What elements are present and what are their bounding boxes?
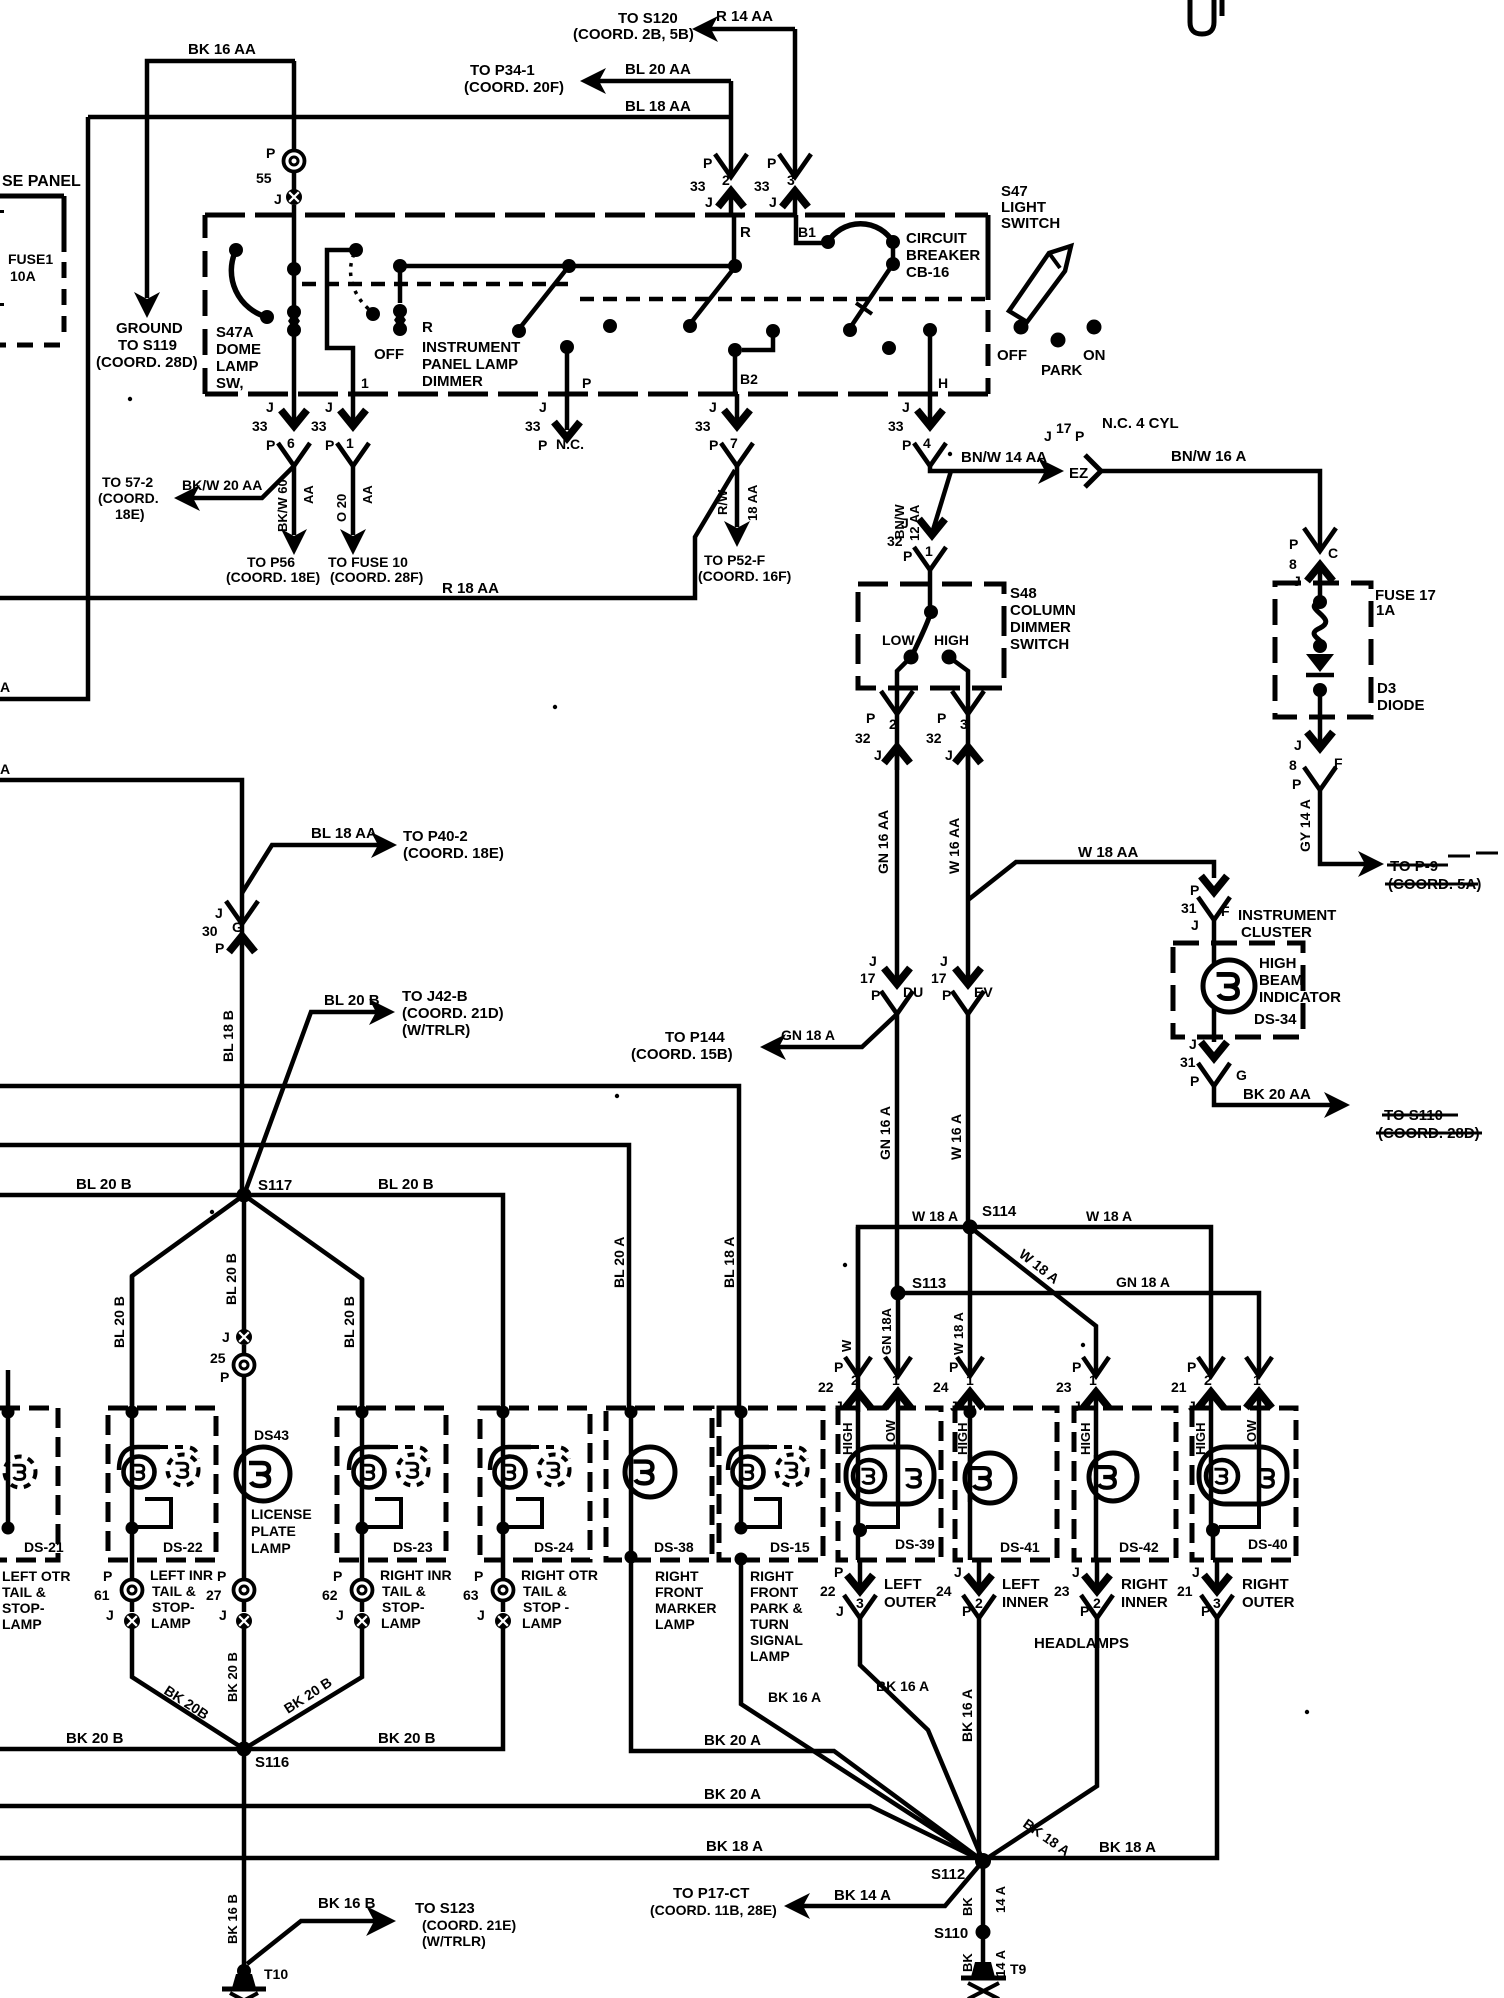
- svg-text:HIGH: HIGH: [955, 1423, 970, 1456]
- svg-text:(COORD. 28D): (COORD. 28D): [96, 354, 198, 371]
- node S117: [237, 1188, 252, 1203]
- svg-text:33: 33: [525, 418, 541, 434]
- wire BL 20 B to J42-B: [244, 1012, 383, 1195]
- svg-text:P: P: [871, 987, 880, 1003]
- svg-text:FUSE1: FUSE1: [8, 251, 53, 267]
- svg-text:1: 1: [892, 1372, 900, 1388]
- connector pin 3 of J32: [966, 688, 971, 714]
- wire BK 14 A down from S112: [981, 1861, 986, 1929]
- DS-41 bulb: [965, 1453, 1015, 1503]
- svg-text:P: P: [1187, 1359, 1196, 1375]
- wire GN 18 A to P144: [772, 1014, 897, 1047]
- connector DU: [884, 968, 910, 984]
- wire W 16 AA: [966, 747, 971, 984]
- svg-text:STOP -: STOP -: [523, 1599, 570, 1615]
- connector pin 2 of J32: [895, 688, 900, 714]
- svg-text:P: P: [538, 437, 547, 453]
- svg-text:23: 23: [1056, 1379, 1072, 1395]
- wire pin 1 LOW of DS-39: [896, 1392, 901, 1503]
- svg-text:N.C. 4 CYL: N.C. 4 CYL: [1102, 415, 1179, 432]
- svg-text:32: 32: [926, 730, 942, 746]
- svg-text:TO S123: TO S123: [415, 1900, 475, 1917]
- svg-text:P: P: [1075, 428, 1084, 444]
- svg-text:GN 18 A: GN 18 A: [1116, 1274, 1170, 1290]
- svg-text:3: 3: [1213, 1595, 1221, 1611]
- wire BK 16 B to S123: [247, 1921, 380, 1964]
- instrument cluster box: [1173, 943, 1303, 1037]
- wire W 18 AA branch: [968, 862, 1214, 900]
- high beam indicator bulb DS-34: [1203, 960, 1255, 1012]
- svg-text:J: J: [940, 953, 948, 969]
- svg-text:D3: D3: [1377, 680, 1396, 697]
- svg-text:BL 20 B: BL 20 B: [111, 1296, 127, 1348]
- svg-text:BK 20 AA: BK 20 AA: [1243, 1086, 1311, 1103]
- svg-text:LAMP: LAMP: [151, 1615, 191, 1631]
- connector F into cluster: [1201, 876, 1227, 892]
- wire through cluster: [1212, 920, 1217, 1042]
- svg-text:ON: ON: [1083, 347, 1106, 364]
- svg-text:W 16 AA: W 16 AA: [946, 818, 962, 874]
- svg-text:1: 1: [925, 543, 933, 559]
- svg-text:TO P52-F: TO P52-F: [704, 552, 766, 568]
- svg-text:TO P40-2: TO P40-2: [403, 828, 468, 845]
- svg-text:DS43: DS43: [254, 1427, 289, 1443]
- svg-text:24: 24: [933, 1379, 949, 1395]
- svg-text:J: J: [836, 1603, 844, 1619]
- svg-text:TO S119: TO S119: [118, 337, 177, 354]
- ground arrow to S119: [134, 292, 160, 318]
- svg-text:33: 33: [695, 418, 711, 434]
- svg-text:2: 2: [1093, 1595, 1101, 1611]
- svg-text:BL 20 B: BL 20 B: [341, 1296, 357, 1348]
- wire W 18 A left segment: [858, 1227, 970, 1412]
- svg-text:BK: BK: [960, 1897, 975, 1916]
- lamp DS43 license plate: [236, 1447, 290, 1501]
- wire BK 18 A from DS-42 to S112: [983, 1617, 1097, 1861]
- svg-text:W 18 A: W 18 A: [951, 1312, 966, 1355]
- svg-text:LAMP: LAMP: [750, 1648, 790, 1664]
- svg-text:T9: T9: [1010, 1961, 1027, 1977]
- svg-text:P: P: [266, 437, 275, 453]
- connector pin 3 below DS-40: [1215, 1560, 1220, 1591]
- wire BK 20 A bus: [0, 1806, 983, 1861]
- node S116: [237, 1742, 252, 1757]
- svg-text:17: 17: [931, 970, 947, 986]
- svg-text:P: P: [582, 375, 591, 391]
- wire vertical to pin 2: [729, 81, 734, 177]
- wire BK 20 B from DS43 to S116: [242, 1628, 247, 1749]
- diode D3 element: [1306, 654, 1334, 672]
- svg-text:LAMP: LAMP: [2, 1616, 42, 1632]
- svg-text:PANEL LAMP: PANEL LAMP: [422, 356, 518, 373]
- svg-text:BK 16 AA: BK 16 AA: [188, 41, 256, 58]
- svg-text:C: C: [1328, 545, 1338, 561]
- lamp DS-39 left outer headlamp: [838, 1408, 941, 1560]
- svg-text:LEFT INR: LEFT INR: [150, 1567, 213, 1583]
- svg-text:HIGH: HIGH: [934, 632, 969, 648]
- svg-text:SWITCH: SWITCH: [1010, 636, 1069, 653]
- svg-text:P: P: [703, 155, 712, 171]
- svg-text:(W/TRLR): (W/TRLR): [402, 1022, 470, 1039]
- svg-text:LIGHT: LIGHT: [1001, 199, 1046, 216]
- connector pin 3 of J33/P: [779, 154, 811, 177]
- svg-text:STOP-: STOP-: [152, 1599, 195, 1615]
- svg-text:TAIL &: TAIL &: [523, 1583, 567, 1599]
- svg-text:BL 20 B: BL 20 B: [378, 1176, 434, 1193]
- svg-text:1: 1: [966, 1372, 974, 1388]
- connector J 25 P on DS43 feed: [236, 1329, 252, 1345]
- svg-text:17: 17: [1056, 420, 1072, 436]
- svg-text:14 A: 14 A: [993, 1885, 1008, 1913]
- svg-text:(COORD. 15B): (COORD. 15B): [631, 1046, 733, 1063]
- wire BK 20 B from DS-24 to S116: [244, 1628, 503, 1749]
- svg-text:S48: S48: [1010, 585, 1037, 602]
- svg-text:BK/W 20 AA: BK/W 20 AA: [182, 477, 262, 493]
- svg-text:J: J: [869, 953, 877, 969]
- svg-text:S117: S117: [258, 1177, 292, 1194]
- svg-text:DS-34: DS-34: [1254, 1011, 1297, 1028]
- svg-text:J: J: [477, 1607, 485, 1623]
- wire BL 18 AA: [88, 115, 731, 120]
- wire W 18 A down to DS-41: [968, 1227, 973, 1376]
- svg-text:P: P: [942, 987, 951, 1003]
- svg-text:RIGHT: RIGHT: [750, 1568, 794, 1584]
- svg-text:21: 21: [1171, 1379, 1187, 1395]
- svg-text:TO P144: TO P144: [665, 1029, 725, 1046]
- svg-text:BK 20 B: BK 20 B: [225, 1652, 240, 1702]
- svg-text:BK 20 A: BK 20 A: [704, 1732, 761, 1749]
- svg-text:55: 55: [256, 170, 272, 186]
- svg-text:33: 33: [690, 178, 706, 194]
- svg-text:GN 18 A: GN 18 A: [781, 1027, 835, 1043]
- svg-text:W 18 A: W 18 A: [1086, 1208, 1132, 1224]
- svg-text:P: P: [709, 437, 718, 453]
- svg-text:(W/TRLR): (W/TRLR): [422, 1933, 486, 1949]
- svg-text:23: 23: [1054, 1583, 1070, 1599]
- svg-text:INDICATOR: INDICATOR: [1259, 989, 1341, 1006]
- svg-text:10A: 10A: [10, 268, 36, 284]
- svg-text:J: J: [1073, 1398, 1081, 1414]
- svg-text:SIGNAL: SIGNAL: [750, 1632, 803, 1648]
- svg-text:33: 33: [754, 178, 770, 194]
- connector pin 6 below switch: [292, 394, 297, 424]
- svg-text:J: J: [705, 194, 713, 210]
- svg-text:RIGHT: RIGHT: [1121, 1576, 1168, 1593]
- wire W 16 A down: [966, 1014, 971, 1227]
- svg-text:1: 1: [1253, 1372, 1261, 1388]
- wire BK/W 20 AA to 57-2: [186, 466, 294, 498]
- wire high contact to pin 3: [949, 657, 968, 688]
- svg-text:(COORD.: (COORD.: [98, 490, 159, 506]
- svg-text:14 A: 14 A: [993, 1949, 1008, 1977]
- svg-text:BL 20 B: BL 20 B: [223, 1253, 239, 1305]
- svg-text:RIGHT INR: RIGHT INR: [380, 1567, 452, 1583]
- svg-text:DS-24: DS-24: [534, 1539, 574, 1555]
- svg-text:P: P: [767, 155, 776, 171]
- svg-text:8: 8: [1289, 556, 1297, 572]
- svg-text:J: J: [266, 399, 274, 415]
- wire bus BL 20 B through S117: [0, 1195, 503, 1413]
- svg-text:TURN: TURN: [750, 1616, 789, 1632]
- N.C. pin below switch: [565, 394, 570, 430]
- svg-text:DS-42: DS-42: [1119, 1539, 1159, 1555]
- svg-text:AA: AA: [360, 485, 375, 504]
- fuse 17 element: [1318, 583, 1323, 602]
- svg-text:62: 62: [322, 1587, 338, 1603]
- svg-text:P: P: [266, 145, 275, 161]
- connector F below diode: [1318, 717, 1323, 748]
- svg-text:FRONT: FRONT: [655, 1584, 704, 1600]
- svg-text:J: J: [1072, 1564, 1080, 1580]
- lamp DS-42 right inner headlamp: [1074, 1408, 1176, 1560]
- wire GN 18 A right segment to DS-40: [898, 1293, 1259, 1376]
- svg-text:TO 57-2: TO 57-2: [102, 474, 153, 490]
- svg-text:P: P: [834, 1359, 843, 1375]
- svg-text:63: 63: [463, 1587, 479, 1603]
- svg-text:H: H: [938, 375, 948, 391]
- wire low contact to pin 2: [897, 657, 911, 688]
- svg-text:O 20: O 20: [334, 494, 349, 522]
- svg-text:COLUMN: COLUMN: [1010, 602, 1076, 619]
- wire from BK 16 AA corner to P55 connector: [292, 61, 297, 151]
- lamp DS-23 right inner tail/stop: [337, 1408, 446, 1560]
- wire pin 1 of DS-40: [1257, 1392, 1262, 1503]
- svg-text:P: P: [1190, 882, 1199, 898]
- svg-text:INNER: INNER: [1121, 1594, 1168, 1611]
- svg-text:HIGH: HIGH: [1259, 955, 1297, 972]
- svg-text:MARKER: MARKER: [655, 1600, 716, 1616]
- svg-text:(COORD. 20F): (COORD. 20F): [464, 79, 564, 96]
- svg-text:TO S120: TO S120: [618, 10, 678, 27]
- speck dots: [553, 705, 557, 709]
- svg-text:BK 16 B: BK 16 B: [318, 1895, 376, 1912]
- main dome lamp wire with contacts: [292, 215, 297, 394]
- svg-text:LAMP: LAMP: [216, 358, 259, 375]
- svg-text:(COORD. 2B, 5B): (COORD. 2B, 5B): [573, 26, 694, 43]
- svg-text:GN 16 A: GN 16 A: [877, 1106, 893, 1160]
- wire vertical to pin 3: [793, 29, 798, 177]
- svg-text:3: 3: [856, 1595, 864, 1611]
- svg-text:BK 14 A: BK 14 A: [834, 1887, 891, 1904]
- svg-text:18 AA: 18 AA: [745, 484, 760, 521]
- svg-text:22: 22: [818, 1379, 834, 1395]
- svg-text:31: 31: [1180, 1054, 1196, 1070]
- wire BK 20 B bus left of S116: [0, 1747, 244, 1752]
- svg-text:DS-21: DS-21: [24, 1539, 64, 1555]
- svg-text:DS-22: DS-22: [163, 1539, 203, 1555]
- wire BK 14 A to T9: [981, 1932, 986, 1962]
- H contact: [923, 323, 937, 337]
- svg-text:1: 1: [1089, 1372, 1097, 1388]
- svg-text:J: J: [215, 905, 223, 921]
- svg-text:INSTRUMENT: INSTRUMENT: [1238, 907, 1336, 924]
- svg-text:2: 2: [722, 172, 730, 188]
- connector EV: [955, 968, 981, 984]
- svg-text:P: P: [902, 437, 911, 453]
- svg-text:TO P34-1: TO P34-1: [470, 62, 535, 79]
- svg-text:(COORD. 21D): (COORD. 21D): [402, 1005, 504, 1022]
- svg-text:2: 2: [889, 716, 897, 732]
- svg-text:32: 32: [855, 730, 871, 746]
- svg-text:EV: EV: [974, 984, 993, 1000]
- svg-text:R: R: [422, 319, 433, 336]
- svg-text:P: P: [1292, 776, 1301, 792]
- svg-text:HIGH: HIGH: [1193, 1423, 1208, 1456]
- svg-text:R 14 AA: R 14 AA: [716, 8, 773, 25]
- svg-text:J: J: [336, 1607, 344, 1623]
- svg-text:31: 31: [1181, 900, 1197, 916]
- svg-text:TO J42-B: TO J42-B: [402, 988, 468, 1005]
- wire GY 14 A to P-9: [1320, 790, 1372, 864]
- svg-text:17: 17: [860, 970, 876, 986]
- wire R 18 AA bus: [0, 470, 735, 598]
- light switch lever icon: [1009, 246, 1071, 322]
- svg-text:P: P: [1190, 1073, 1199, 1089]
- left bus wire from top: [0, 117, 88, 699]
- wire bus BL 18 A: [0, 1086, 739, 1413]
- svg-text:61: 61: [94, 1587, 110, 1603]
- DS-42 bulb: [1089, 1453, 1137, 1501]
- wire BK 14 A to P17-CT: [796, 1861, 983, 1906]
- dimmer wiper low/high: [912, 612, 931, 656]
- connector P 55 J at dome lamp feed: [284, 151, 305, 172]
- svg-text:3: 3: [787, 172, 795, 188]
- N.C. contact: [560, 340, 574, 354]
- wire O 20 AA down from pin 1: [351, 466, 356, 535]
- svg-text:BL 18 AA: BL 18 AA: [625, 98, 691, 115]
- svg-text:12 AA: 12 AA: [907, 504, 922, 541]
- connector pin 4 below switch: [928, 394, 933, 424]
- wire from pole 2 to pin 1: [327, 250, 356, 394]
- svg-text:F: F: [1221, 903, 1230, 919]
- svg-text:P: P: [903, 548, 912, 564]
- wire GN 18A down to DS-39: [896, 1293, 901, 1376]
- svg-text:P: P: [1072, 1359, 1081, 1375]
- circuit breaker CB-16 B1 feed: [796, 215, 826, 243]
- svg-text:J: J: [274, 191, 282, 207]
- svg-text:7: 7: [730, 435, 738, 451]
- svg-text:(COORD. 18E): (COORD. 18E): [226, 569, 320, 585]
- svg-text:A: A: [0, 761, 10, 777]
- svg-text:J: J: [222, 1329, 230, 1345]
- svg-text:P: P: [325, 437, 334, 453]
- svg-text:BL 18 A: BL 18 A: [721, 1237, 737, 1288]
- svg-text:J: J: [950, 1398, 958, 1414]
- svg-text:DS-41: DS-41: [1000, 1539, 1040, 1555]
- wire BK 16 A from DS-15 to S112: [741, 1559, 983, 1861]
- svg-text:PARK &: PARK &: [750, 1600, 803, 1616]
- svg-text:BK/W 60: BK/W 60: [275, 479, 290, 532]
- svg-text:P: P: [949, 1359, 958, 1375]
- wire pin 2 HIGH of DS-39: [856, 1227, 861, 1376]
- svg-text:R: R: [740, 224, 751, 241]
- svg-text:J: J: [769, 194, 777, 210]
- svg-text:RIGHT: RIGHT: [1242, 1576, 1289, 1593]
- svg-text:DIMMER: DIMMER: [422, 373, 483, 390]
- svg-text:BK: BK: [960, 1953, 975, 1972]
- wire W 18 A diagonal to DS-42: [970, 1227, 1096, 1376]
- wire BL 20 B to DS-22: [132, 1195, 244, 1413]
- svg-text:J: J: [1294, 737, 1302, 753]
- svg-text:BL 20 A: BL 20 A: [611, 1237, 627, 1288]
- svg-text:CIRCUIT: CIRCUIT: [906, 230, 967, 247]
- svg-text:N.C.: N.C.: [556, 436, 584, 452]
- wire BL 20 AA to P34-1: [592, 79, 731, 84]
- wire pin 2 of DS-40: [1209, 1392, 1214, 1530]
- wire BK 18 A from DS-40 to S112: [983, 1617, 1217, 1858]
- svg-text:J: J: [219, 1607, 227, 1623]
- svg-text:A: A: [0, 679, 10, 695]
- svg-text:B1: B1: [798, 224, 816, 240]
- svg-text:J: J: [709, 399, 717, 415]
- svg-text:CLUSTER: CLUSTER: [1241, 924, 1312, 941]
- wire BL 20 B down to DS43: [242, 1195, 247, 1330]
- svg-text:OUTER: OUTER: [884, 1594, 937, 1611]
- svg-text:BK 18 A: BK 18 A: [706, 1838, 763, 1855]
- svg-text:S110: S110: [934, 1925, 968, 1942]
- svg-text:RIGHT OTR: RIGHT OTR: [521, 1567, 598, 1583]
- svg-text:J: J: [945, 747, 953, 763]
- wire BL 20 B to DS-23: [244, 1195, 362, 1413]
- svg-text:P: P: [1080, 1603, 1089, 1619]
- svg-text:OFF: OFF: [374, 346, 404, 363]
- wire BK/W 60 AA down from pin 6: [292, 466, 297, 535]
- svg-text:W 18 AA: W 18 AA: [1078, 844, 1138, 861]
- svg-text:6: 6: [287, 435, 295, 451]
- svg-text:HIGH: HIGH: [1078, 1423, 1093, 1456]
- wire into dimmer: [928, 585, 933, 612]
- svg-text:TAIL &: TAIL &: [382, 1583, 426, 1599]
- svg-text:8: 8: [1289, 757, 1297, 773]
- svg-text:OFF: OFF: [997, 347, 1027, 364]
- svg-text:27: 27: [206, 1587, 222, 1603]
- svg-text:SE PANEL: SE PANEL: [2, 173, 81, 190]
- svg-text:P: P: [215, 940, 224, 956]
- svg-text:GN 16 AA: GN 16 AA: [875, 810, 891, 874]
- svg-text:INSTRUMENT: INSTRUMENT: [422, 339, 520, 356]
- svg-text:LEFT: LEFT: [884, 1576, 922, 1593]
- svg-text:RIGHT: RIGHT: [655, 1568, 699, 1584]
- wire R/W 18 AA down from pin 7: [735, 466, 740, 527]
- svg-text:FRONT: FRONT: [750, 1584, 799, 1600]
- svg-text:GROUND: GROUND: [116, 320, 183, 337]
- svg-text:SWITCH: SWITCH: [1001, 215, 1060, 232]
- switch assembly box: [205, 213, 988, 218]
- svg-text:DS-40: DS-40: [1248, 1536, 1288, 1552]
- wire BN/W 16 A: [1101, 471, 1320, 551]
- svg-text:(COORD. 16F): (COORD. 16F): [698, 568, 791, 584]
- svg-text:J: J: [954, 1564, 962, 1580]
- wire W 18 A right segment: [970, 1227, 1211, 1376]
- wire BK 16 B down from S116: [242, 1749, 247, 1968]
- svg-text:LAMP: LAMP: [251, 1540, 291, 1556]
- svg-text:S113: S113: [912, 1275, 946, 1292]
- svg-text:21: 21: [1177, 1583, 1193, 1599]
- DS-40 dual filament bulb: [1199, 1447, 1287, 1504]
- lamp DS-40 right outer headlamp: [1192, 1408, 1296, 1560]
- svg-text:BL 20 B: BL 20 B: [76, 1176, 132, 1193]
- lamp DS-38 right front marker: [606, 1408, 712, 1560]
- svg-text:DS-39: DS-39: [895, 1536, 935, 1552]
- svg-text:F: F: [1334, 755, 1343, 771]
- svg-text:(COORD. 18E): (COORD. 18E): [403, 845, 504, 862]
- connector G below cluster: [1201, 1042, 1227, 1058]
- svg-text:J: J: [1191, 917, 1199, 933]
- connector EZ: [1038, 458, 1064, 484]
- svg-text:1: 1: [346, 435, 354, 451]
- wire BL 18 AA branch to P40-2: [242, 845, 385, 893]
- svg-text:1A: 1A: [1376, 602, 1395, 619]
